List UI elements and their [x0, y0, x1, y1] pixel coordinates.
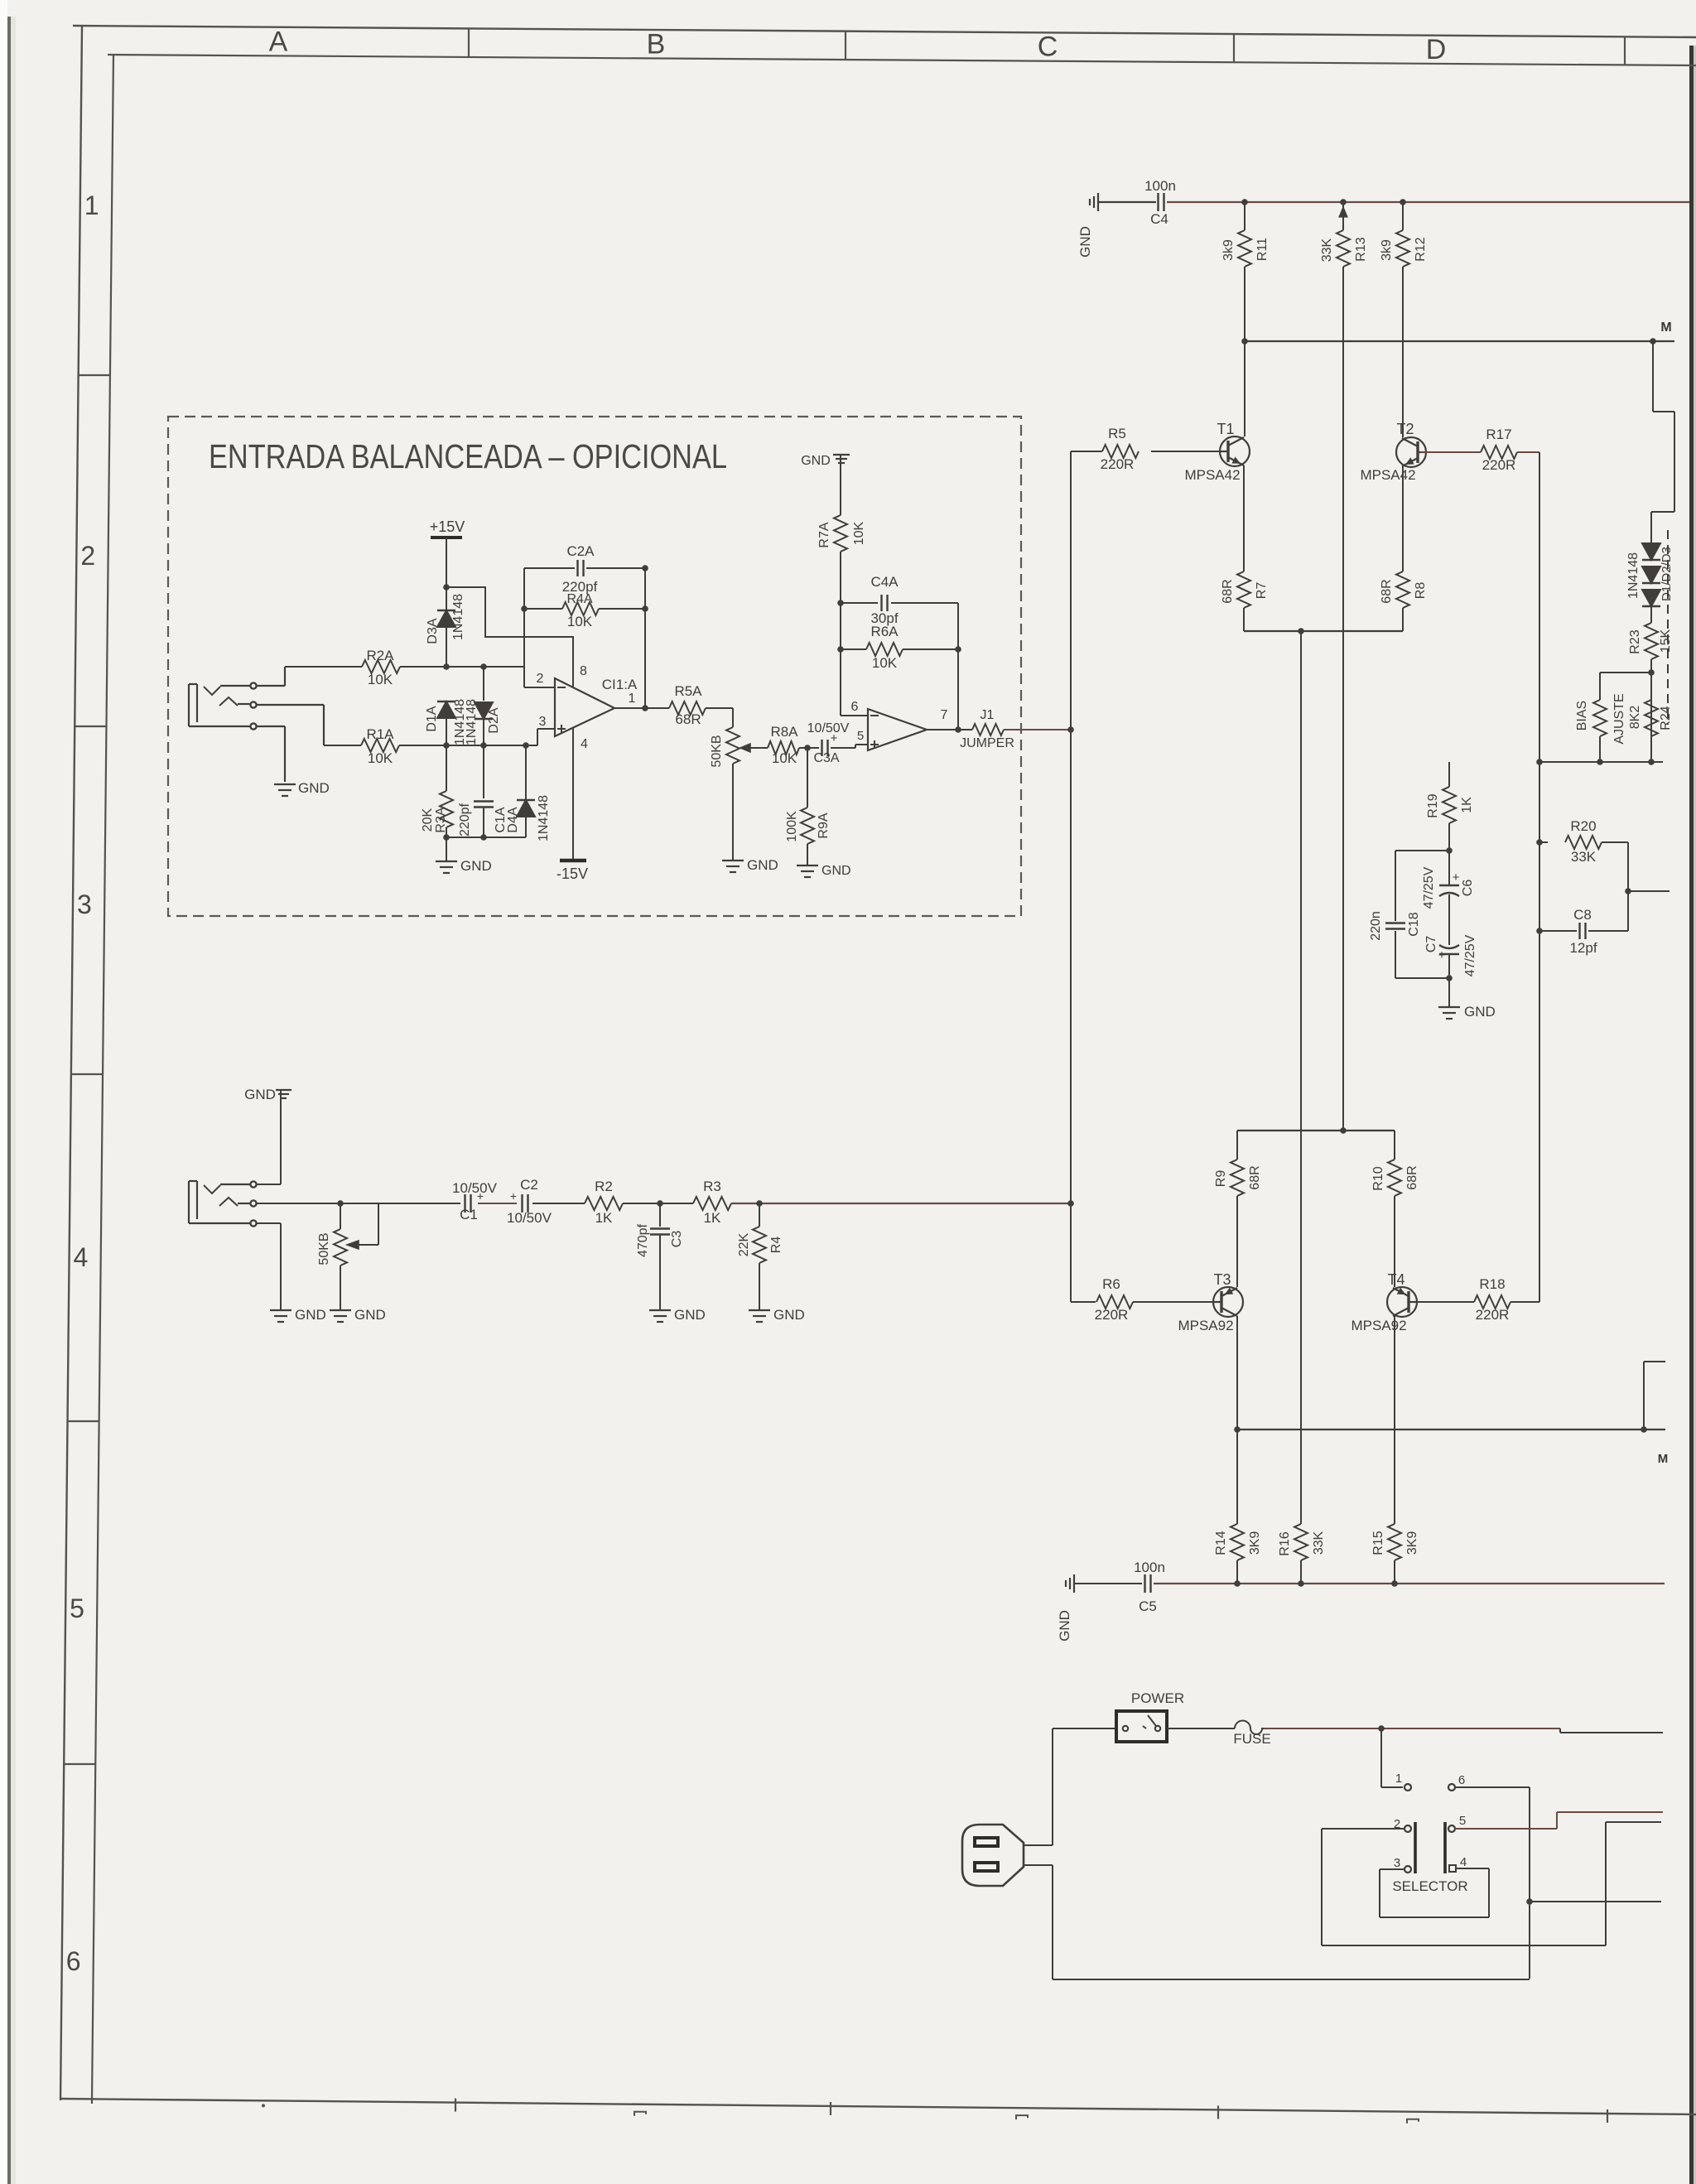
svg-text:R3A: R3A [434, 807, 448, 832]
svg-text:C4A: C4A [870, 574, 899, 590]
svg-text:5: 5 [70, 1593, 84, 1623]
svg-text:T4: T4 [1387, 1271, 1404, 1288]
svg-text:C4: C4 [1150, 211, 1168, 227]
svg-text:A: A [269, 26, 288, 57]
svg-text:+: + [477, 1189, 484, 1203]
svg-text:68R: 68R [1248, 1165, 1262, 1189]
svg-text:3k9: 3k9 [1221, 239, 1236, 261]
svg-text:220n: 220n [1369, 911, 1383, 941]
svg-text:12pf: 12pf [1569, 940, 1597, 956]
svg-text:1K: 1K [595, 1210, 613, 1226]
svg-text:8K2: 8K2 [1628, 706, 1642, 730]
svg-text:R24: R24 [1659, 706, 1673, 730]
svg-text:GND: GND [773, 1307, 805, 1323]
svg-text:R17: R17 [1486, 427, 1511, 442]
svg-text:33K: 33K [1312, 1531, 1326, 1555]
svg-text:3K9: 3K9 [1405, 1531, 1419, 1555]
svg-text:3: 3 [539, 715, 547, 729]
svg-text:10K: 10K [872, 655, 898, 671]
svg-text:10K: 10K [368, 672, 393, 687]
svg-text:D1A: D1A [425, 706, 439, 731]
svg-text:R9: R9 [1214, 1170, 1228, 1188]
svg-text:R14: R14 [1214, 1531, 1228, 1555]
svg-text:C2: C2 [520, 1177, 538, 1193]
svg-text:3K9: 3K9 [1248, 1531, 1262, 1555]
svg-text:GND: GND [354, 1307, 386, 1323]
svg-text:2: 2 [80, 541, 95, 571]
svg-text:T1: T1 [1217, 421, 1234, 437]
svg-text:D: D [1426, 34, 1447, 65]
svg-text:5: 5 [1459, 1814, 1466, 1828]
svg-text:8: 8 [580, 664, 587, 678]
svg-text:10/50V: 10/50V [807, 721, 850, 735]
svg-text:1: 1 [84, 190, 99, 220]
svg-text:R2A: R2A [366, 648, 394, 663]
svg-text:20K: 20K [421, 808, 435, 832]
svg-text:3: 3 [1394, 1856, 1400, 1870]
svg-text:220R: 220R [1095, 1307, 1129, 1323]
svg-text:R10: R10 [1371, 1166, 1385, 1190]
svg-text:T2: T2 [1396, 421, 1414, 437]
svg-text:100n: 100n [1144, 178, 1176, 194]
svg-text:10K: 10K [772, 750, 797, 766]
svg-text:GND: GND [1464, 1004, 1496, 1020]
svg-text:C2A: C2A [566, 543, 595, 559]
svg-text:M: M [1658, 1452, 1669, 1466]
svg-text:1N4148: 1N4148 [451, 594, 465, 640]
svg-text:4: 4 [1460, 1855, 1467, 1869]
svg-text:C18: C18 [1407, 912, 1421, 936]
svg-text:R19: R19 [1426, 793, 1440, 817]
svg-text:R6: R6 [1102, 1276, 1120, 1292]
svg-text:MPSA42: MPSA42 [1360, 467, 1415, 483]
svg-text:6: 6 [851, 700, 859, 714]
svg-text:GND: GND [1057, 1610, 1072, 1642]
svg-text:C3A: C3A [813, 751, 839, 765]
svg-text:POWER: POWER [1131, 1690, 1184, 1706]
svg-text:R4: R4 [769, 1237, 783, 1254]
svg-text:SELECTOR: SELECTOR [1392, 1878, 1467, 1894]
svg-text:R5: R5 [1108, 426, 1126, 441]
svg-text:R8: R8 [1414, 582, 1428, 600]
svg-text:C7: C7 [1424, 936, 1438, 953]
svg-text:FUSE: FUSE [1233, 1731, 1270, 1747]
svg-text:4: 4 [581, 737, 588, 751]
svg-text:D2A: D2A [487, 707, 501, 733]
svg-text:R13: R13 [1354, 237, 1368, 261]
svg-text:R18: R18 [1479, 1276, 1505, 1292]
svg-text:R8A: R8A [770, 724, 798, 740]
svg-text:GND: GND [821, 864, 851, 878]
svg-text:50KB: 50KB [710, 735, 724, 767]
svg-text:3k9: 3k9 [1380, 239, 1394, 261]
svg-text:33K: 33K [1571, 849, 1597, 865]
svg-text:6: 6 [66, 1946, 81, 1976]
svg-text:1N4148: 1N4148 [537, 795, 551, 841]
svg-text:GND: GND [674, 1307, 706, 1323]
svg-text:22K: 22K [737, 1232, 751, 1256]
svg-text:100n: 100n [1134, 1560, 1165, 1575]
svg-text:C5: C5 [1139, 1598, 1157, 1614]
svg-text:BIAS: BIAS [1575, 701, 1589, 730]
svg-text:R5A: R5A [674, 683, 702, 699]
svg-text:47/25V: 47/25V [1422, 866, 1436, 909]
svg-text:10K: 10K [567, 614, 593, 629]
svg-text:+15V: +15V [430, 518, 465, 535]
svg-text:220R: 220R [1482, 457, 1516, 473]
svg-text:220pf: 220pf [458, 803, 472, 836]
svg-text:5: 5 [857, 729, 864, 743]
svg-text:3: 3 [77, 890, 92, 919]
svg-text:T3: T3 [1213, 1271, 1231, 1288]
svg-text:6: 6 [1458, 1773, 1465, 1787]
svg-text:R1A: R1A [366, 726, 394, 742]
svg-text:GND: GND [1077, 226, 1093, 258]
svg-text:R16: R16 [1278, 1531, 1292, 1555]
svg-text:10/50V: 10/50V [452, 1180, 498, 1196]
svg-text:220R: 220R [1476, 1307, 1510, 1323]
svg-text:C8: C8 [1573, 907, 1592, 923]
svg-text:B: B [647, 28, 666, 60]
svg-text:R23: R23 [1628, 629, 1642, 653]
svg-text:10/50V: 10/50V [507, 1210, 552, 1226]
svg-text:C3: C3 [670, 1231, 684, 1248]
svg-text:JUMPER: JUMPER [960, 736, 1014, 750]
svg-text:+: + [1438, 948, 1446, 962]
svg-text:68R: 68R [675, 711, 701, 727]
svg-text:D3A: D3A [426, 618, 440, 644]
svg-text:R6A: R6A [870, 624, 899, 639]
svg-text:+: + [1453, 870, 1460, 885]
svg-text:R2: R2 [595, 1179, 613, 1194]
svg-text:R20: R20 [1570, 818, 1596, 834]
svg-text:M: M [1660, 321, 1671, 335]
svg-text:R11: R11 [1255, 238, 1270, 261]
svg-text:R4A: R4A [566, 592, 592, 606]
svg-text:-15V: -15V [556, 865, 588, 882]
svg-text:470pf: 470pf [636, 1223, 650, 1257]
svg-text:R7: R7 [1255, 582, 1269, 600]
svg-text:1K: 1K [704, 1210, 721, 1226]
svg-text:33K: 33K [1320, 238, 1334, 262]
svg-text:MPSA92: MPSA92 [1178, 1318, 1233, 1333]
svg-text:1: 1 [629, 692, 636, 706]
svg-text:R3: R3 [703, 1179, 721, 1194]
svg-text:CI1:A: CI1:A [602, 677, 638, 692]
svg-text:C: C [1038, 31, 1058, 63]
svg-text:15K: 15K [1659, 629, 1673, 653]
svg-text:MPSA42: MPSA42 [1184, 467, 1240, 483]
svg-text:4: 4 [74, 1242, 89, 1272]
svg-text:ENTRADA BALANCEADA – OPICIONAL: ENTRADA BALANCEADA – OPICIONAL [209, 437, 727, 475]
svg-text:GND: GND [747, 857, 778, 873]
svg-text:R9A: R9A [817, 812, 831, 838]
svg-text:50KB: 50KB [317, 1232, 331, 1265]
svg-text:68R: 68R [1405, 1165, 1419, 1189]
svg-text:68R: 68R [1221, 579, 1235, 603]
svg-text:MPSA92: MPSA92 [1351, 1318, 1406, 1333]
svg-text:10K: 10K [368, 750, 393, 766]
svg-text:GND: GND [295, 1307, 326, 1323]
svg-text:R15: R15 [1371, 1531, 1385, 1555]
svg-text:+: + [510, 1189, 517, 1203]
svg-text:J1: J1 [980, 708, 995, 722]
svg-text:D4A: D4A [506, 807, 520, 832]
svg-text:GND: GND [460, 858, 492, 874]
svg-text:R12: R12 [1414, 237, 1428, 261]
svg-text:1N4148: 1N4148 [1626, 552, 1641, 599]
svg-text:100K: 100K [785, 811, 799, 842]
svg-text:C1: C1 [460, 1207, 478, 1222]
svg-text:68R: 68R [1380, 579, 1394, 603]
svg-text:7: 7 [941, 708, 948, 722]
svg-text:AJUSTE: AJUSTE [1612, 693, 1626, 744]
svg-text:R7A: R7A [817, 522, 831, 547]
svg-text:C6: C6 [1461, 880, 1475, 897]
svg-text:D1/D2/D3: D1/D2/D3 [1660, 547, 1674, 601]
svg-text:GND: GND [244, 1087, 276, 1102]
svg-text:2: 2 [537, 672, 544, 686]
svg-text:10K: 10K [852, 521, 866, 545]
svg-text:220R: 220R [1101, 456, 1135, 472]
svg-text:GND: GND [298, 780, 330, 796]
svg-text:1K: 1K [1460, 797, 1474, 813]
svg-text:1: 1 [1395, 1772, 1402, 1786]
svg-text:GND: GND [801, 454, 831, 468]
svg-text:47/25V: 47/25V [1463, 934, 1477, 976]
